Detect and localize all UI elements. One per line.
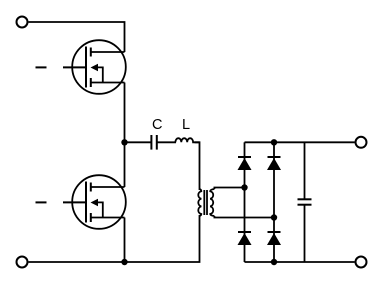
svg-text:L: L: [182, 117, 190, 133]
junction node A: [121, 139, 127, 145]
terminal IN-: [17, 257, 28, 268]
terminal OUT-: [356, 257, 367, 268]
wire bottom rail primary: [29, 215, 200, 262]
wire secondary top: [214, 188, 244, 190]
junction right leg / bottom rail: [271, 259, 277, 265]
wire bridge right leg: [273, 142, 275, 262]
transistor Q2: [63, 175, 126, 229]
wire inductor to transformer: [195, 142, 200, 190]
wire Q1 source to Q2 drain: [124, 83, 126, 188]
svg-text:C: C: [152, 117, 162, 133]
transformer core: [204, 190, 207, 215]
diode D2: [267, 157, 281, 170]
inductor L: [175, 138, 199, 142]
capacitor Cout: [298, 199, 312, 204]
capacitor Cout lead bottom: [304, 205, 306, 262]
transformer secondary winding: [210, 189, 214, 216]
wire secondary bottom: [214, 216, 274, 218]
diode D3: [238, 232, 252, 245]
junction secondary bottom / right leg: [271, 214, 277, 220]
gate drive dash Q2: [36, 201, 47, 203]
transistor Q1: [63, 40, 126, 94]
junction Q2 source / bottom rail: [121, 259, 127, 265]
wire top output rail: [245, 141, 355, 143]
wire capacitor to inductor: [157, 141, 176, 143]
wire bridge left leg: [244, 142, 246, 262]
gate drive dash Q1: [36, 66, 47, 68]
capacitor Cout lead top: [304, 142, 306, 199]
junction right leg / top rail: [271, 139, 277, 145]
transformer primary winding: [198, 189, 201, 216]
junction secondary top / left leg: [241, 184, 247, 190]
terminal OUT+: [356, 137, 367, 148]
wire Q2 source down: [124, 218, 126, 263]
capacitor C: [151, 135, 156, 150]
diode D4: [267, 232, 281, 245]
wire node to capacitor: [125, 141, 152, 143]
terminal IN+: [17, 17, 28, 28]
wire bottom output rail: [245, 261, 355, 263]
diode D1: [238, 157, 252, 170]
wire top rail input: [29, 22, 125, 52]
